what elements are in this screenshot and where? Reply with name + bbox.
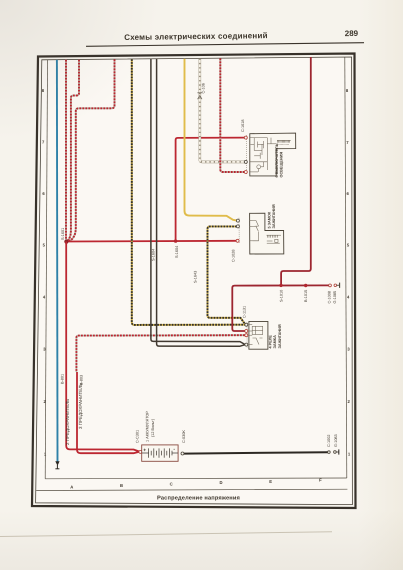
svg-text:S-1604: S-1604 [152, 249, 156, 261]
svg-text:289: 289 [345, 29, 359, 38]
svg-text:C: C [170, 482, 173, 487]
svg-text:1 АККУМУЛЯТОР: 1 АККУМУЛЯТОР [145, 411, 149, 442]
svg-text:3 ПРЕДОХРАНИТЕЛЬ: 3 ПРЕДОХРАНИТЕЛЬ [78, 383, 83, 429]
svg-text:+: + [143, 447, 146, 453]
svg-text:S-1010: S-1010 [279, 290, 283, 302]
svg-text:F: F [319, 477, 322, 482]
svg-text:S-1601: S-1601 [61, 228, 65, 240]
svg-text:S-1604: S-1604 [175, 246, 179, 258]
svg-text:B: B [120, 483, 123, 488]
svg-text:C-1002: C-1002 [327, 435, 331, 447]
svg-text:G-1085: G-1085 [333, 291, 337, 304]
svg-text:C-1618: C-1618 [241, 120, 245, 132]
svg-text:B-1015: B-1015 [304, 290, 308, 302]
svg-text:G-1083: G-1083 [334, 434, 338, 447]
svg-text:6 ВЫКЛЮЧАТЕЛЬ: 6 ВЫКЛЮЧАТЕЛЬ [275, 143, 279, 177]
svg-text:ЗАЖИГАНИЯ: ЗАЖИГАНИЯ [278, 324, 282, 348]
svg-text:C-C301: C-C301 [136, 430, 140, 443]
svg-text:ЗАМКА: ЗАМКА [273, 335, 277, 349]
svg-text:E: E [269, 479, 272, 484]
svg-text:C-1131: C-1131 [243, 306, 247, 318]
svg-text:C-030K: C-030K [182, 430, 186, 443]
svg-text:C-1008: C-1008 [328, 291, 332, 303]
svg-text:Распределение напряжения: Распределение напряжения [157, 496, 240, 502]
svg-text:ЗАЖИГАНИЯ: ЗАЖИГАНИЯ [272, 204, 276, 228]
svg-text:C-1028: C-1028 [232, 250, 236, 262]
svg-text:B-801: B-801 [61, 374, 65, 384]
svg-text:S-1643: S-1643 [194, 271, 198, 283]
svg-text:5 ЗАМОК: 5 ЗАМОК [267, 211, 271, 228]
svg-text:C-106: C-106 [202, 83, 206, 93]
svg-text:D: D [219, 480, 222, 485]
svg-text:2 ПРЕДОХРАНИТЕЛЬ: 2 ПРЕДОХРАНИТЕЛЬ [65, 399, 70, 445]
svg-text:4 РЕЛЕ: 4 РЕЛЕ [268, 335, 272, 349]
svg-text:(12 Вольт): (12 Вольт) [151, 418, 155, 437]
svg-text:ОСВЕЩЕНИЯ: ОСВЕЩЕНИЯ [280, 152, 284, 178]
svg-text:A: A [70, 485, 73, 490]
